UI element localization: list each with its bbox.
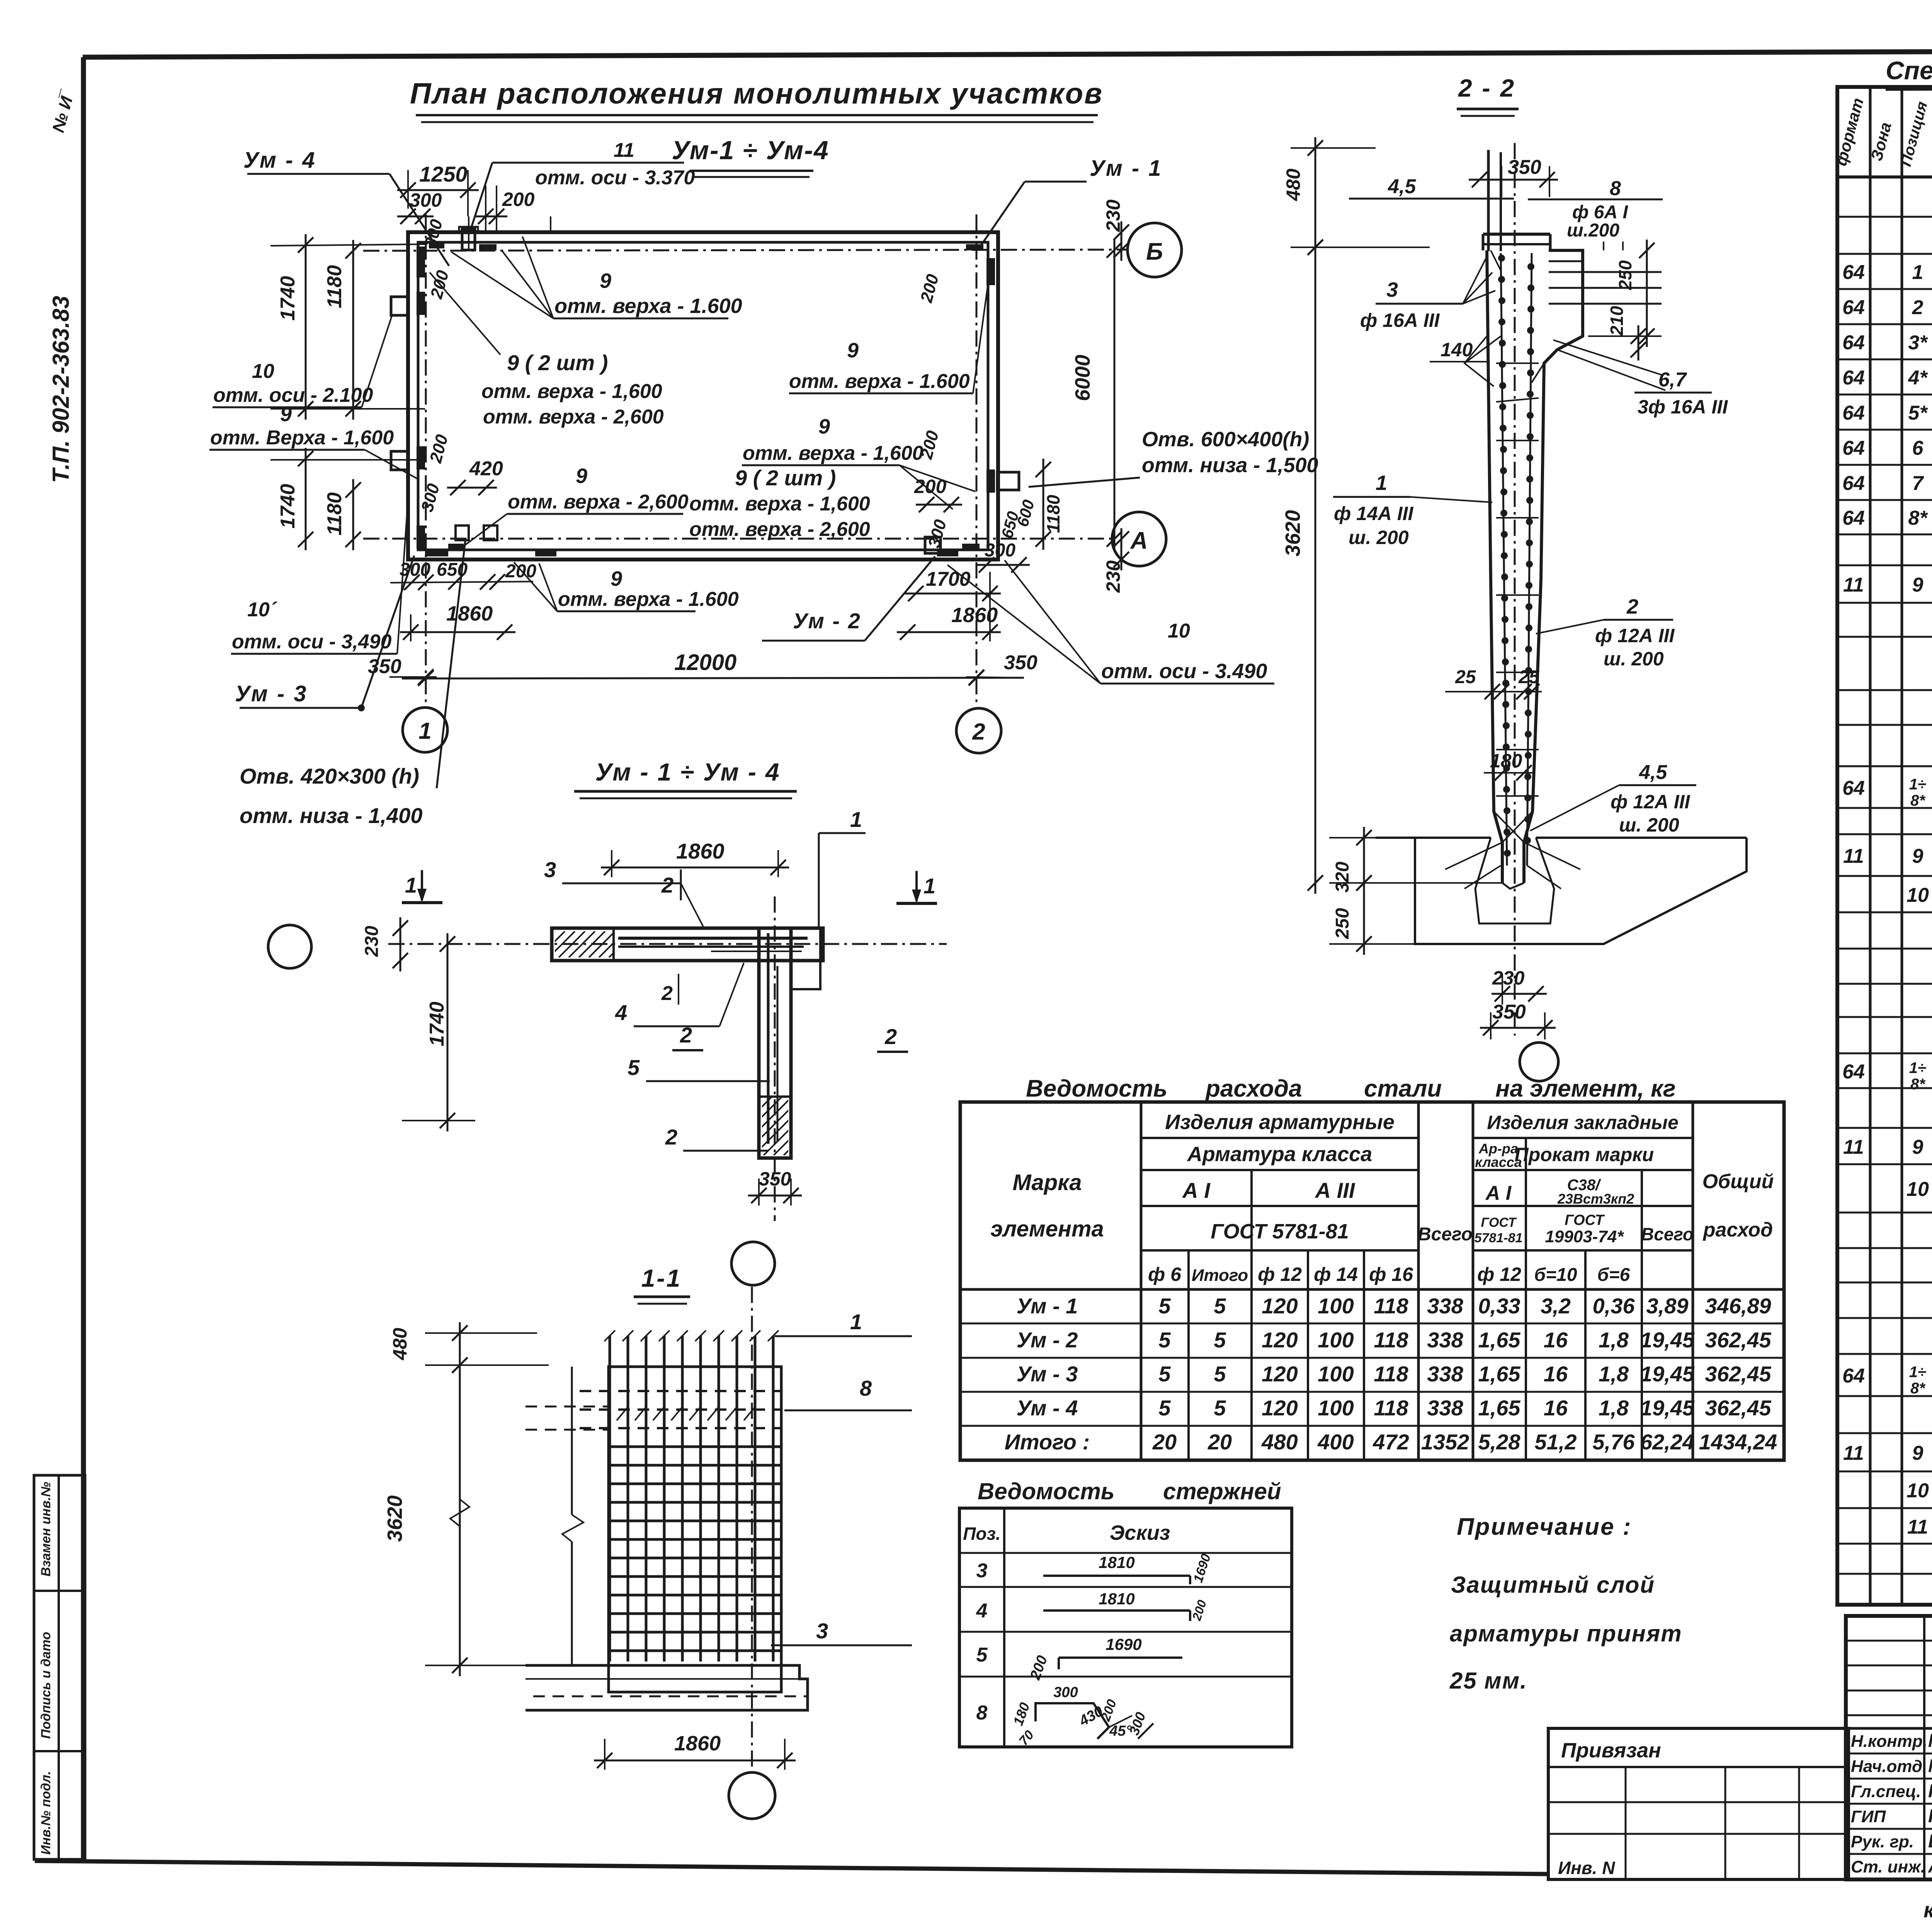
svg-text:Марка: Марка [1012, 1170, 1082, 1195]
privyazan table frame [1548, 1728, 1849, 1879]
plan outer wall rectangle [408, 232, 998, 560]
svg-text:64: 64 [1842, 367, 1865, 389]
2-2 inner rebar right with dots [1527, 253, 1532, 866]
svg-text:Гл.спец.: Гл.спец. [1851, 1782, 1921, 1801]
svg-text:ф 14: ф 14 [1314, 1264, 1358, 1285]
steel table horizontal grid [1141, 1137, 1418, 1139]
svg-text:100: 100 [1318, 1362, 1354, 1386]
svg-text:Болотова: Болотова [1928, 1831, 1932, 1852]
svg-text:А: А [1130, 527, 1148, 554]
svg-text:копировал: ЖС_: копировал: ЖС_ [1923, 1898, 1932, 1922]
svg-text:расход: расход [1702, 1219, 1773, 1241]
svg-text:400: 400 [1317, 1430, 1354, 1454]
svg-text:3: 3 [544, 857, 556, 882]
sheet bottom border [35, 1861, 1548, 1874]
svg-text:расхода: расхода [1205, 1075, 1302, 1102]
svg-text:5: 5 [628, 1055, 640, 1080]
1-1 footing [526, 1665, 808, 1710]
svg-text:3620: 3620 [1281, 510, 1304, 556]
svg-text:8: 8 [860, 1376, 872, 1400]
svg-text:Прокат марки: Прокат марки [1515, 1144, 1654, 1165]
extension verticals below plan [989, 572, 991, 641]
svg-text:472: 472 [1372, 1430, 1409, 1454]
2-2 wall left face [1487, 250, 1502, 883]
svg-text:1,8: 1,8 [1599, 1362, 1629, 1386]
svg-text:Защитный слой: Защитный слой [1451, 1572, 1655, 1598]
svg-text:4,5: 4,5 [1388, 175, 1416, 198]
title block left small columns [1923, 1616, 1925, 1879]
svg-text:Ум-1 ÷ Ум-4: Ум-1 ÷ Ум-4 [672, 136, 829, 165]
svg-text:4: 4 [615, 1000, 627, 1025]
svg-text:А I: А I [1485, 1182, 1512, 1204]
extra joint blobs at plan corners [429, 242, 444, 248]
svg-text:338: 338 [1427, 1396, 1463, 1420]
svg-text:140: 140 [1440, 339, 1473, 361]
svg-text:64: 64 [1842, 296, 1865, 319]
svg-text:стали: стали [1364, 1075, 1442, 1102]
svg-text:350: 350 [1004, 651, 1037, 674]
svg-text:3: 3 [1386, 278, 1398, 301]
title block name rows [1846, 1753, 1932, 1755]
svg-text:9: 9 [600, 269, 611, 293]
svg-text:2: 2 [1626, 595, 1638, 618]
plan axis 2 vertical dash-dot [976, 214, 978, 707]
spec table header row texts [1837, 175, 1932, 179]
1-1 bottom axis circle [729, 1772, 775, 1819]
svg-text:Итого: Итого [1192, 1266, 1248, 1285]
svg-text:64: 64 [1842, 507, 1865, 529]
svg-text:346,89: 346,89 [1705, 1294, 1771, 1318]
svg-text:8: 8 [1610, 177, 1621, 200]
svg-text:1180: 1180 [323, 265, 346, 308]
2-2 top cap [1483, 233, 1550, 236]
svg-text:План расположения монолитных: План расположения монолитных участков [410, 77, 1103, 110]
svg-text:8*: 8* [1908, 507, 1928, 529]
svg-text:Ум - 1 ÷ Ум - 4: Ум - 1 ÷ Ум - 4 [595, 758, 781, 786]
svg-text:300: 300 [400, 560, 430, 580]
svg-text:8*: 8* [1910, 1380, 1926, 1397]
steel table vertical grid [1140, 1102, 1143, 1460]
svg-text:9: 9 [280, 403, 292, 426]
svg-text:1: 1 [850, 1310, 862, 1334]
svg-text:1740: 1740 [277, 276, 299, 321]
svg-text:350: 350 [1508, 156, 1541, 179]
2-2 top rebar bars extending up [1487, 150, 1490, 251]
corner detail axis dash-dot horizontal [388, 943, 947, 945]
svg-text:1352: 1352 [1421, 1430, 1469, 1454]
svg-text:1740: 1740 [426, 1002, 448, 1046]
steel table outer frame [960, 1102, 1784, 1460]
svg-text:12000: 12000 [674, 650, 736, 675]
svg-text:1,8: 1,8 [1599, 1396, 1629, 1420]
spec table horizontal grid [1837, 216, 1932, 218]
svg-text:6: 6 [1912, 437, 1924, 459]
svg-text:10´: 10´ [247, 599, 277, 621]
svg-text:362,45: 362,45 [1705, 1362, 1771, 1386]
svg-text:Примечание :: Примечание : [1457, 1514, 1632, 1540]
1-1 stirrup zigzag marks [617, 1406, 628, 1420]
corner detail precast hatched bottom [703, 1097, 852, 1155]
svg-text:Рук. гр.: Рук. гр. [1851, 1832, 1914, 1851]
2-2 centerline dash-dot [1514, 143, 1516, 1036]
svg-text:ш. 200: ш. 200 [1619, 814, 1679, 836]
svg-text:отм. оси - 3.490: отм. оси - 3.490 [1101, 660, 1267, 683]
svg-text:ф 12А III: ф 12А III [1611, 791, 1690, 813]
svg-text:1180: 1180 [1043, 495, 1063, 533]
svg-text:320: 320 [1332, 862, 1353, 893]
svg-text:3ф 16А III: 3ф 16А III [1638, 396, 1728, 418]
svg-text:19,45: 19,45 [1640, 1362, 1695, 1386]
svg-text:7: 7 [1912, 472, 1924, 495]
svg-text:1: 1 [923, 874, 935, 898]
svg-text:1: 1 [1912, 261, 1923, 284]
svg-text:19,45: 19,45 [1640, 1328, 1695, 1352]
svg-text:0,36: 0,36 [1593, 1294, 1635, 1318]
1-1 wall outline [609, 1367, 781, 1692]
svg-text:100: 100 [1318, 1396, 1354, 1420]
svg-text:2: 2 [680, 1023, 692, 1047]
svg-text:1-1: 1-1 [641, 1264, 682, 1292]
svg-text:250: 250 [1615, 260, 1635, 290]
svg-text:Общий: Общий [1702, 1170, 1774, 1193]
svg-text:200: 200 [914, 476, 947, 497]
2-2 rebar dots [1498, 255, 1505, 262]
svg-text:1860: 1860 [446, 602, 493, 625]
svg-text:отм. верха - 2,600: отм. верха - 2,600 [508, 491, 689, 513]
svg-text:64: 64 [1842, 437, 1865, 459]
svg-text:б=10: б=10 [1534, 1265, 1577, 1285]
corner detail vertical rebar lines [767, 933, 770, 1144]
svg-text:118: 118 [1374, 1294, 1408, 1318]
svg-text:ш. 200: ш. 200 [1604, 648, 1664, 670]
svg-text:ф 16: ф 16 [1369, 1264, 1413, 1285]
bars list frame [959, 1508, 1292, 1747]
pipe sleeve bottom wall right [925, 537, 940, 553]
svg-text:1690: 1690 [1105, 1635, 1141, 1653]
spec table outer frame [1837, 87, 1932, 1605]
svg-text:ф 6А I: ф 6А I [1572, 202, 1629, 223]
svg-text:1250: 1250 [419, 162, 468, 186]
svg-text:2: 2 [661, 982, 673, 1005]
svg-text:б=6: б=6 [1597, 1265, 1630, 1285]
svg-text:9: 9 [611, 567, 622, 590]
svg-text:5: 5 [976, 1644, 988, 1666]
svg-text:64: 64 [1842, 472, 1865, 495]
svg-text:Изделия закладные: Изделия закладные [1487, 1112, 1679, 1133]
svg-text:Ст. инж.: Ст. инж. [1851, 1857, 1925, 1876]
shared axis circle between corner detail and 1-1 [731, 1242, 775, 1285]
svg-text:арматуры принят: арматуры принят [1450, 1621, 1682, 1646]
svg-text:1700: 1700 [926, 568, 971, 590]
svg-text:Итого :: Итого : [1005, 1430, 1090, 1454]
svg-text:11: 11 [1843, 845, 1864, 867]
svg-text:Отв. 600×400(h): Отв. 600×400(h) [1142, 428, 1309, 451]
svg-text:Н.контр.: Н.контр. [1851, 1732, 1927, 1751]
svg-text:480: 480 [1261, 1430, 1298, 1454]
svg-text:230: 230 [1492, 967, 1525, 989]
svg-text:1860: 1860 [676, 839, 724, 863]
svg-text:Ум - 1: Ум - 1 [1017, 1294, 1078, 1318]
svg-text:19903-74*: 19903-74* [1545, 1227, 1624, 1246]
pipe sleeve bottom wall pos Um-2 [456, 526, 469, 540]
svg-text:отм. верха - 2,600: отм. верха - 2,600 [689, 518, 870, 541]
svg-text:118: 118 [1374, 1328, 1408, 1352]
svg-text:64: 64 [1842, 261, 1865, 284]
svg-text:300: 300 [1053, 1684, 1078, 1701]
svg-text:8*: 8* [1910, 1076, 1926, 1093]
1-1 axis dash-dot vertical [751, 1287, 753, 1770]
plan inner wall rectangle [418, 242, 988, 550]
svg-text:25: 25 [1518, 667, 1540, 687]
2-2 inner rebar left with dots [1501, 253, 1507, 866]
svg-text:1,8: 1,8 [1599, 1328, 1629, 1352]
svg-text:ГОСТ 5781-81: ГОСТ 5781-81 [1211, 1220, 1349, 1243]
svg-text:11: 11 [1843, 1136, 1864, 1158]
svg-text:10: 10 [1906, 1178, 1929, 1201]
svg-text:Мильцер: Мильцер [1928, 1731, 1932, 1751]
svg-text:3: 3 [816, 1619, 828, 1643]
2-2 wall right face with corbel [1524, 250, 1583, 883]
svg-text:9: 9 [847, 339, 859, 362]
svg-text:Абдулина: Абдулина [1928, 1856, 1932, 1877]
svg-text:64: 64 [1842, 777, 1865, 799]
1-1 vertical rebars [609, 1336, 611, 1662]
axis circle 1 [403, 707, 447, 752]
2-2 footing [1376, 837, 1491, 839]
svg-text:Ум - 1: Ум - 1 [1090, 156, 1163, 181]
svg-text:9: 9 [1912, 1442, 1923, 1464]
svg-text:ш.200: ш.200 [1567, 220, 1619, 241]
svg-text:100: 100 [1318, 1328, 1354, 1352]
svg-text:ф 12: ф 12 [1258, 1264, 1302, 1285]
pipe sleeve left wall upper [391, 297, 408, 315]
svg-text:10: 10 [1168, 620, 1190, 642]
svg-text:51,2: 51,2 [1535, 1430, 1577, 1454]
svg-text:9: 9 [818, 415, 830, 438]
svg-text:5,28: 5,28 [1478, 1430, 1521, 1454]
svg-text:9: 9 [1912, 845, 1923, 867]
svg-text:5: 5 [1214, 1294, 1226, 1318]
svg-text:3,2: 3,2 [1541, 1294, 1571, 1318]
svg-text:100: 100 [1318, 1294, 1354, 1318]
svg-text:25 мм.: 25 мм. [1449, 1668, 1527, 1694]
svg-text:1810: 1810 [1099, 1553, 1134, 1571]
svg-text:ф 16А III: ф 16А III [1360, 310, 1440, 331]
2-2 bottom fan lines [1445, 842, 1502, 869]
svg-text:Ум - 2: Ум - 2 [1017, 1328, 1078, 1352]
svg-text:Руссин: Руссин [1928, 1781, 1932, 1801]
svg-text:200: 200 [505, 561, 536, 582]
corner detail adjacent panel right [791, 928, 820, 989]
svg-text:300: 300 [985, 540, 1015, 561]
svg-text:Инв. N: Инв. N [1558, 1858, 1615, 1878]
svg-text:5: 5 [1214, 1328, 1226, 1352]
svg-text:9: 9 [1912, 574, 1923, 596]
svg-text:отм. верха - 1.600: отм. верха - 1.600 [558, 588, 739, 611]
plan axis B horizontal dash-dot [363, 250, 1127, 251]
svg-text:200: 200 [502, 189, 535, 210]
corner detail vertical wall band [759, 928, 791, 1158]
svg-text:1810: 1810 [1099, 1590, 1134, 1608]
svg-text:Всего: Всего [1418, 1224, 1473, 1245]
svg-text:ГИП: ГИП [1851, 1807, 1886, 1826]
pipe sleeve right wall pos10 [997, 472, 1019, 490]
svg-text:338: 338 [1427, 1294, 1463, 1318]
svg-text:отм. низа - 1,400: отм. низа - 1,400 [240, 803, 422, 828]
axis circle B [1128, 223, 1182, 277]
svg-text:11: 11 [1907, 1516, 1928, 1538]
svg-text:отм. верха - 2,600: отм. верха - 2,600 [483, 406, 664, 428]
spec table vertical grid [1869, 87, 1872, 1605]
svg-text:ш. 200: ш. 200 [1349, 527, 1409, 548]
svg-text:338: 338 [1427, 1328, 1463, 1352]
svg-text:8*: 8* [1910, 792, 1926, 809]
svg-text:11: 11 [614, 139, 634, 162]
svg-text:отм. верха - 1.600: отм. верха - 1.600 [554, 294, 742, 318]
svg-text:250: 250 [1332, 908, 1353, 939]
svg-text:Всего: Всего [1641, 1224, 1694, 1244]
svg-text:350: 350 [759, 1168, 791, 1190]
svg-text:64: 64 [1842, 1365, 1865, 1387]
svg-text:650: 650 [437, 560, 468, 580]
svg-text:Эскиз: Эскиз [1110, 1521, 1170, 1544]
svg-text:10: 10 [252, 360, 274, 383]
left margin stamp boxes [34, 1475, 85, 1859]
svg-text:Б: Б [1146, 238, 1163, 265]
svg-text:Ведомость: Ведомость [978, 1478, 1115, 1504]
svg-text:64: 64 [1842, 402, 1865, 424]
svg-text:4*: 4* [1908, 367, 1928, 389]
corner detail axis dash-dot vertical [774, 896, 776, 1221]
svg-text:отм. оси - 3.370: отм. оси - 3.370 [535, 167, 695, 189]
svg-text:2: 2 [884, 1024, 897, 1049]
svg-text:1÷: 1÷ [1909, 776, 1926, 793]
corner detail horizontal rebar lines [618, 937, 808, 940]
svg-text:2: 2 [972, 719, 985, 745]
svg-text:ф 12А III: ф 12А III [1595, 625, 1675, 646]
svg-text:62,24: 62,24 [1640, 1430, 1694, 1454]
svg-text:на элемент, кг: на элемент, кг [1495, 1075, 1676, 1102]
svg-text:350: 350 [1492, 1001, 1526, 1023]
svg-text:А III: А III [1315, 1178, 1355, 1202]
svg-text:118: 118 [1374, 1362, 1408, 1386]
svg-text:элемента: элемента [990, 1216, 1104, 1242]
svg-text:2: 2 [665, 1125, 677, 1149]
corner detail horizontal wall band [552, 928, 823, 961]
svg-text:5,76: 5,76 [1593, 1430, 1635, 1454]
svg-text:11: 11 [1843, 574, 1864, 596]
2-2 tie lines [1496, 362, 1539, 364]
title block outer [1846, 1616, 1932, 1879]
svg-text:5: 5 [1158, 1294, 1171, 1318]
svg-text:2: 2 [1912, 296, 1923, 319]
svg-text:362,45: 362,45 [1705, 1396, 1771, 1420]
svg-text:ф 6: ф 6 [1148, 1264, 1182, 1285]
svg-text:А I: А I [1182, 1178, 1211, 1202]
svg-text:Ум - 4: Ум - 4 [243, 148, 316, 173]
corner detail axis circle left [268, 925, 311, 968]
svg-text:Арматура класса: Арматура класса [1187, 1143, 1372, 1166]
svg-text:20: 20 [1152, 1430, 1177, 1454]
svg-text:Ум - 4: Ум - 4 [1017, 1396, 1078, 1420]
svg-text:16: 16 [1544, 1328, 1568, 1352]
svg-text:16: 16 [1544, 1362, 1568, 1386]
svg-text:1180: 1180 [323, 492, 346, 536]
svg-text:2: 2 [661, 873, 673, 897]
axis circle 2 [956, 708, 1001, 753]
svg-text:1740: 1740 [277, 484, 299, 529]
corner detail precast hatched part [529, 931, 645, 957]
svg-text:ГОСТ: ГОСТ [1481, 1215, 1517, 1230]
svg-text:Т.П. 902-2-363.83: Т.П. 902-2-363.83 [48, 296, 74, 483]
svg-text:отм. низа - 1,500: отм. низа - 1,500 [1142, 454, 1318, 477]
svg-text:Нач.отд.: Нач.отд. [1851, 1757, 1927, 1776]
svg-text:1860: 1860 [674, 1732, 721, 1755]
svg-text:Поз.: Поз. [963, 1524, 1000, 1544]
svg-text:Инв.№ подл.: Инв.№ подл. [39, 1771, 53, 1855]
svg-text:210: 210 [1607, 306, 1627, 336]
svg-text:1,65: 1,65 [1478, 1328, 1521, 1352]
svg-text:3: 3 [976, 1560, 988, 1582]
svg-text:10: 10 [1906, 1480, 1929, 1502]
svg-text:отм. верха - 1,600: отм. верха - 1,600 [743, 442, 923, 464]
svg-text:362,45: 362,45 [1705, 1328, 1771, 1352]
svg-text:19,45: 19,45 [1640, 1396, 1695, 1420]
pipe sleeve left wall lower [391, 451, 408, 470]
svg-text:отм. верха - 1.600: отм. верха - 1.600 [789, 370, 970, 393]
svg-text:5781-81: 5781-81 [1475, 1231, 1523, 1245]
svg-text:Спецификация: Спецификация [1886, 56, 1932, 85]
svg-text:ГОСТ: ГОСТ [1565, 1212, 1605, 1228]
svg-text:2 - 2: 2 - 2 [1458, 74, 1515, 102]
svg-text:120: 120 [1262, 1328, 1298, 1352]
svg-text:Мешалкин: Мешалкин [1928, 1756, 1932, 1776]
svg-text:стержней: стержней [1163, 1478, 1281, 1504]
svg-text:118: 118 [1374, 1396, 1408, 1420]
svg-text:20: 20 [1207, 1430, 1232, 1454]
svg-text:1860: 1860 [951, 604, 998, 627]
svg-text:1: 1 [418, 718, 431, 744]
1-1 far wall edge with break [571, 1367, 573, 1515]
svg-text:отм. Верха - 1,600: отм. Верха - 1,600 [210, 427, 394, 449]
svg-text:3,89: 3,89 [1646, 1294, 1689, 1318]
svg-text:420: 420 [469, 457, 503, 480]
svg-text:9: 9 [1912, 1136, 1923, 1158]
svg-text:6000: 6000 [1071, 355, 1094, 401]
svg-text:120: 120 [1262, 1294, 1298, 1318]
svg-text:Ум - 3: Ум - 3 [1017, 1362, 1078, 1386]
svg-text:64: 64 [1842, 332, 1865, 354]
svg-text:9 ( 2 шт ): 9 ( 2 шт ) [507, 350, 608, 375]
svg-text:1÷: 1÷ [1909, 1364, 1926, 1381]
svg-text:ф 12: ф 12 [1477, 1264, 1521, 1285]
svg-text:5: 5 [1158, 1396, 1171, 1420]
svg-text:338: 338 [1427, 1362, 1463, 1386]
svg-text:120: 120 [1262, 1362, 1298, 1386]
svg-text:4,5: 4,5 [1639, 761, 1667, 784]
svg-text:480: 480 [1282, 168, 1304, 201]
2-2 bottom taper to socket [1494, 811, 1524, 842]
2-2 bottom axis circle [1520, 1043, 1558, 1081]
pipe sleeve pos11 top wall [462, 229, 475, 250]
plan axis A horizontal dash-dot [363, 538, 1111, 540]
svg-text:5: 5 [1158, 1362, 1171, 1386]
svg-text:5: 5 [1214, 1362, 1226, 1386]
svg-text:23Вст3кп2: 23Вст3кп2 [1557, 1191, 1634, 1207]
svg-text:Подпись и дато: Подпись и дато [39, 1632, 53, 1739]
svg-text:Изделия арматурные: Изделия арматурные [1165, 1111, 1395, 1134]
svg-text:9 ( 2 шт ): 9 ( 2 шт ) [735, 466, 836, 490]
